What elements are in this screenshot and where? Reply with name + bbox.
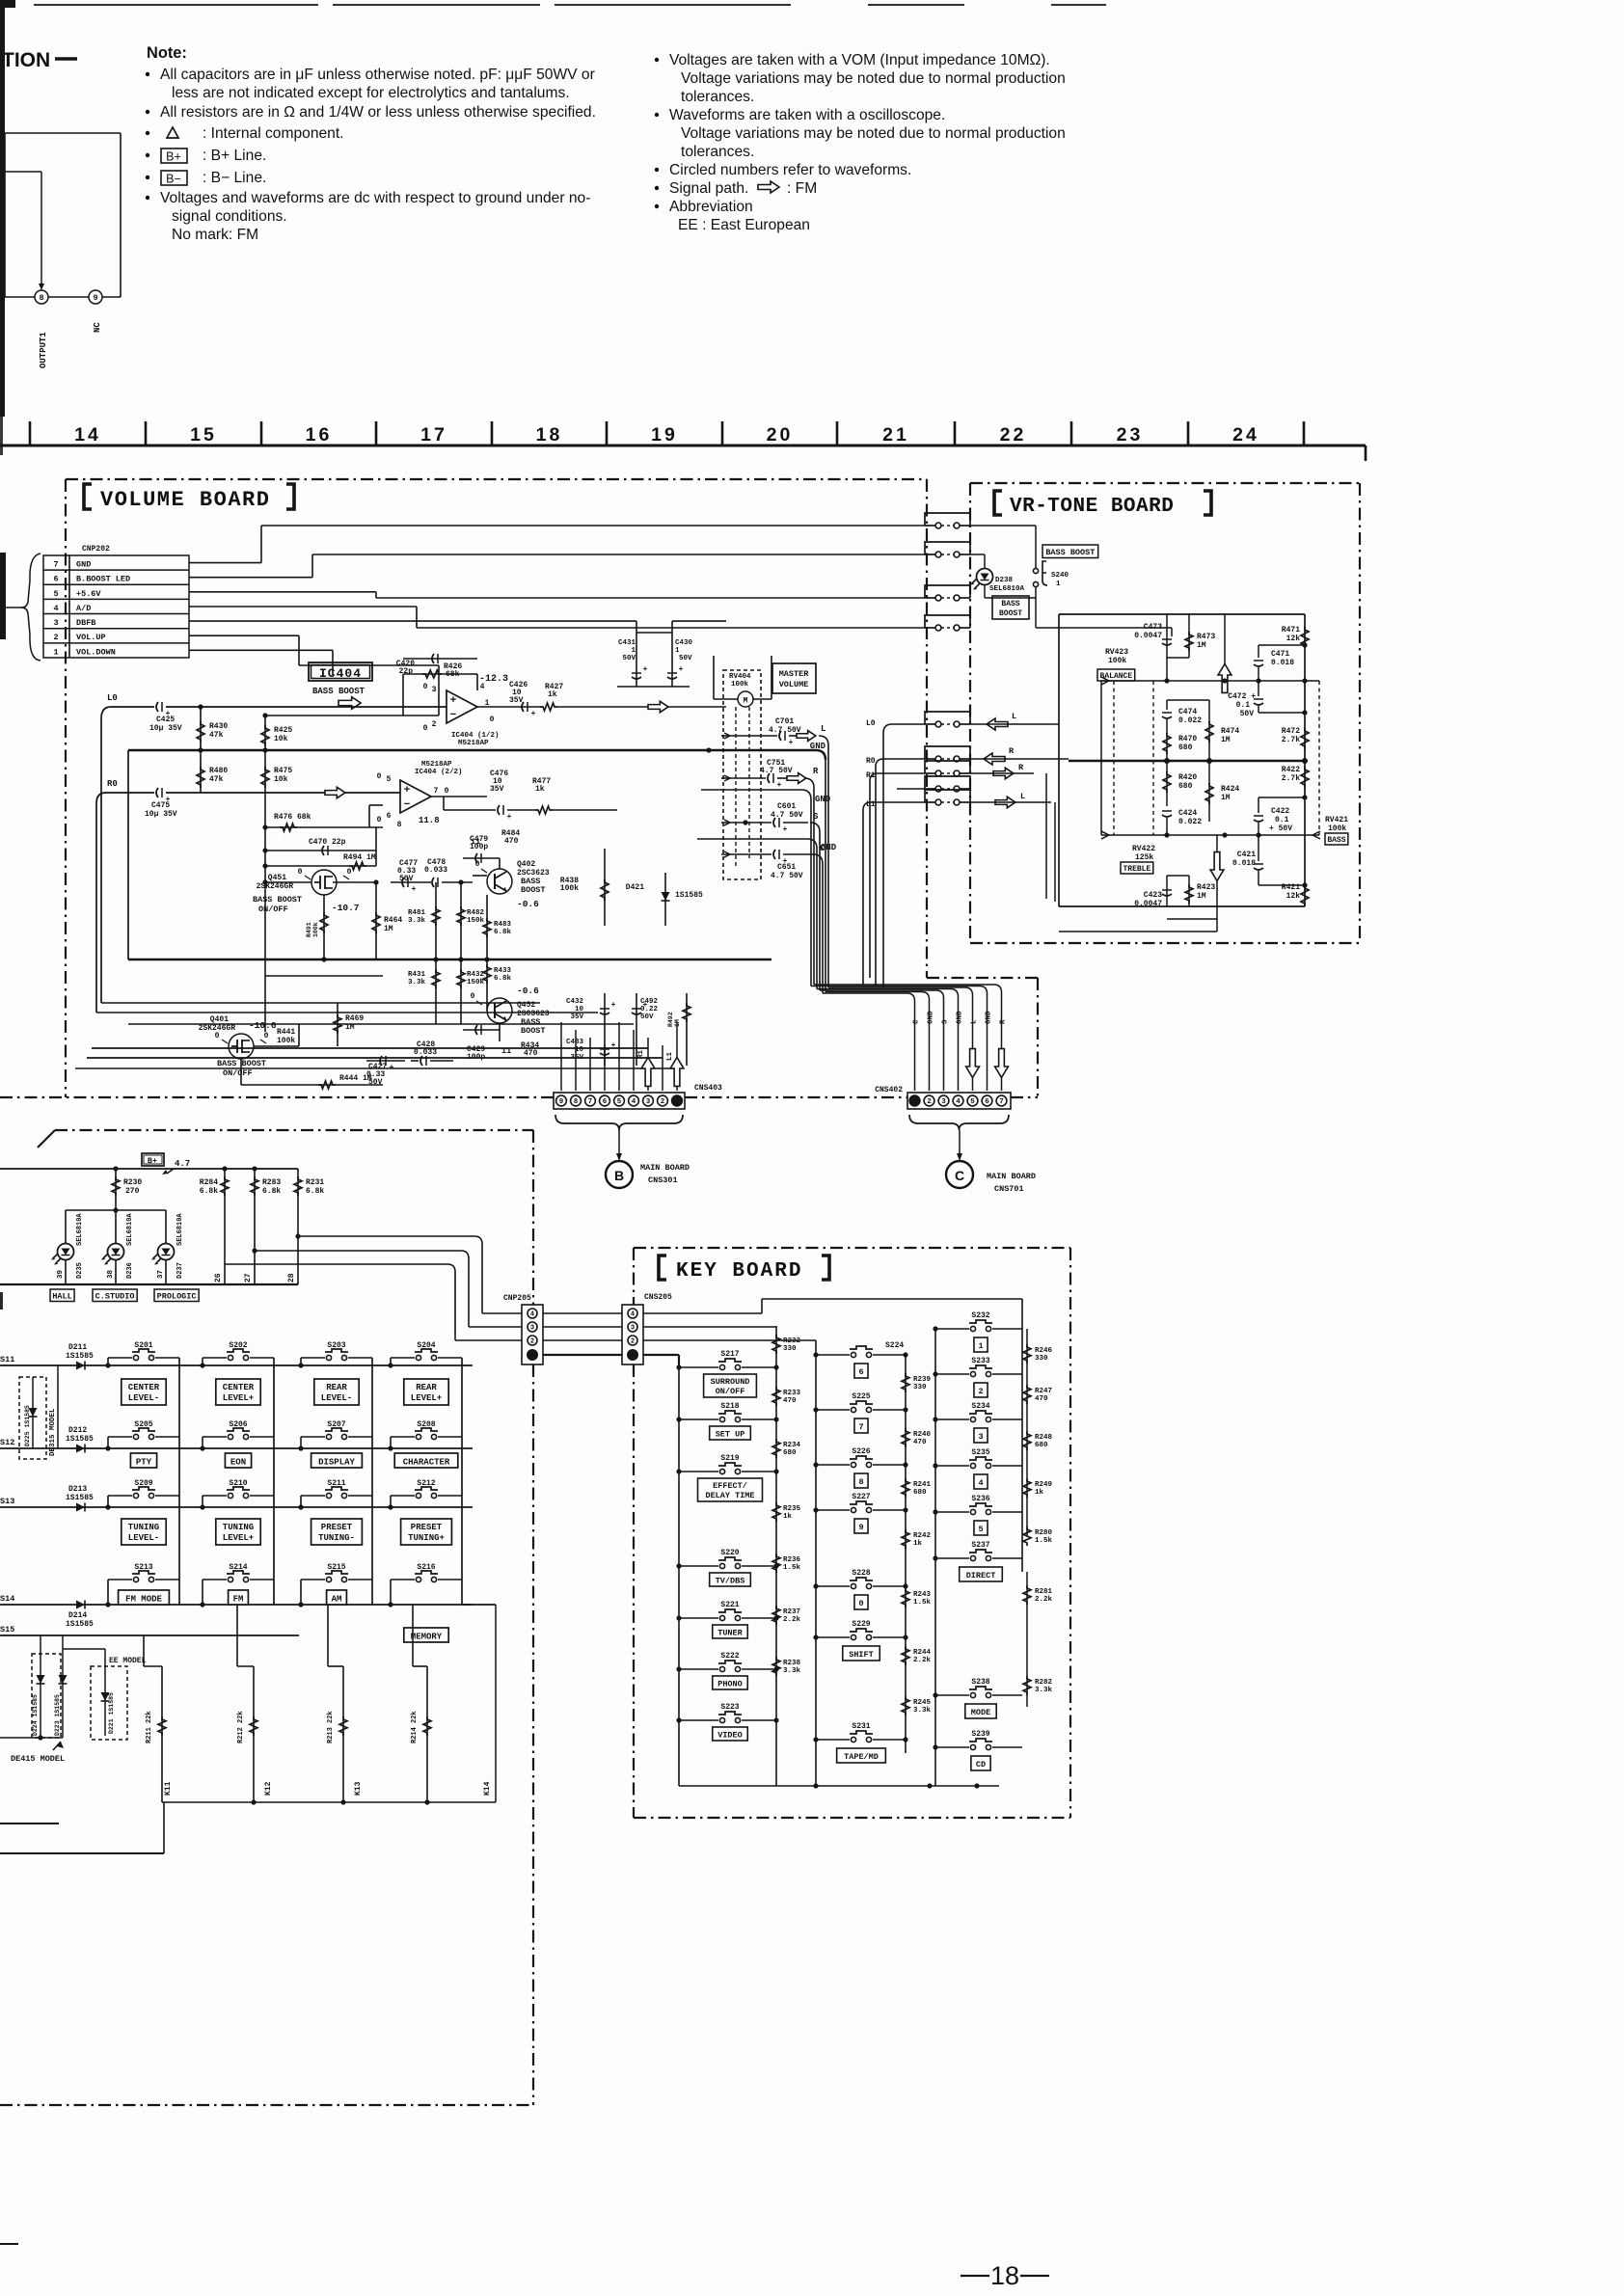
svg-text:R238: R238 — [783, 1660, 801, 1667]
svg-text:DBFB: DBFB — [76, 618, 95, 628]
svg-text:7: 7 — [588, 1098, 593, 1106]
svg-text:4: 4 — [631, 1311, 635, 1319]
right K bus vertical — [462, 1604, 496, 1606]
diode D213 — [76, 1503, 85, 1512]
svg-text:0.1: 0.1 — [1275, 816, 1289, 824]
wire CNP202 pin7 to jumper row 1 — [189, 562, 261, 564]
svg-text:6.8k: 6.8k — [262, 1187, 281, 1196]
net number 28 — [297, 1244, 299, 1284]
svg-text:R423: R423 — [1197, 883, 1215, 892]
capacitor C422 0.1 50V — [1258, 797, 1259, 813]
B+ rail wire — [0, 1168, 298, 1170]
switch S232 — [935, 1328, 969, 1330]
svg-text:1k: 1k — [783, 1513, 793, 1521]
svg-text:signal conditions.: signal conditions. — [172, 208, 287, 225]
svg-text:R481: R481 — [408, 909, 426, 917]
svg-text:R421: R421 — [1282, 883, 1300, 892]
capacitor C424 0.022 — [1162, 810, 1172, 812]
switch S209 — [133, 1493, 138, 1498]
bus exit wires — [0, 1823, 59, 1824]
resistor R425 — [264, 716, 266, 959]
svg-text:R231: R231 — [306, 1178, 324, 1187]
svg-text:EE : East European: EE : East European — [678, 217, 810, 233]
grid ruler — [0, 445, 1366, 447]
svg-text:14: 14 — [74, 424, 101, 446]
svg-text:100k: 100k — [560, 884, 579, 893]
svg-text:S211: S211 — [327, 1479, 345, 1488]
capacitor C475 — [156, 788, 158, 797]
wire CNP202 pin4 to jumper row 4 — [189, 606, 417, 608]
resistor R244 2.2k — [902, 1646, 909, 1665]
wiper arrows on RV404 — [721, 733, 730, 739]
vr-tone bass boost net wires — [1036, 627, 1172, 629]
svg-text:2: 2 — [661, 1098, 665, 1106]
svg-text:-0.6: -0.6 — [517, 899, 539, 909]
svg-text:1S1585: 1S1585 — [66, 1620, 94, 1629]
svg-text:R475: R475 — [274, 767, 292, 775]
svg-text:MASTER: MASTER — [779, 669, 810, 679]
svg-text:DELAY TIME: DELAY TIME — [705, 1491, 754, 1500]
output row R with C751 — [730, 777, 766, 779]
svg-text:S232: S232 — [971, 1311, 989, 1320]
svg-text:No mark: FM: No mark: FM — [172, 227, 258, 243]
svg-text:3: 3 — [530, 1325, 534, 1333]
svg-text:S210: S210 — [229, 1479, 247, 1488]
resistor R243 1.5k — [902, 1588, 909, 1607]
resistor R433 6.8k — [483, 964, 491, 984]
output row GND2 — [701, 790, 811, 799]
connector CNS402 — [907, 1093, 1011, 1109]
model diode dashed box DE315 — [19, 1377, 46, 1459]
svg-text:3.3k: 3.3k — [1035, 1687, 1053, 1694]
resistor R249 1k — [1023, 1478, 1031, 1498]
svg-text:SEL6810A: SEL6810A — [126, 1213, 134, 1246]
svg-text:R245: R245 — [913, 1699, 932, 1707]
svg-text:R214 22k: R214 22k — [411, 1711, 419, 1743]
svg-text:0: 0 — [215, 1032, 220, 1040]
svg-text:S237: S237 — [971, 1541, 989, 1550]
row net S12 wire — [0, 1447, 473, 1449]
svg-text:C432: C432 — [566, 998, 584, 1006]
KEY BOARD title — [659, 1256, 666, 1280]
svg-text:B: B — [614, 1168, 624, 1183]
svg-text:C651: C651 — [777, 863, 796, 872]
page top border line — [34, 4, 318, 6]
svg-text:R: R — [1000, 1019, 1008, 1024]
arrow up L1 into CNS403 — [670, 1058, 684, 1087]
svg-text:4.7 50V: 4.7 50V — [771, 872, 803, 880]
svg-text:DE415 MODEL: DE415 MODEL — [11, 1754, 65, 1764]
svg-text:+ 50V: + 50V — [1269, 824, 1292, 833]
keyboard column 1 bus — [678, 1367, 680, 1786]
svg-text:R: R — [1018, 763, 1024, 772]
resistor R430 — [200, 707, 202, 793]
keyboard bottom rail — [679, 1785, 999, 1787]
svg-text:NC: NC — [93, 322, 102, 333]
svg-text:C.STUDIO: C.STUDIO — [95, 1291, 135, 1301]
svg-text:R494 1M: R494 1M — [343, 853, 376, 862]
transistor Q451 2SK246GR — [311, 870, 337, 895]
svg-text:0.033: 0.033 — [424, 866, 447, 875]
svg-text:330: 330 — [783, 1345, 797, 1353]
svg-text:K13: K13 — [354, 1781, 363, 1796]
resistor R421 12k — [1301, 885, 1309, 906]
svg-text:6.8k: 6.8k — [494, 975, 512, 983]
svg-text:C: C — [820, 844, 826, 853]
B- box symbol in notes — [161, 171, 187, 185]
switch S217 — [679, 1366, 718, 1368]
signal arrow after opamp1 — [648, 701, 668, 712]
svg-text:TREBLE: TREBLE — [1123, 865, 1150, 874]
capacitor C476 — [498, 805, 500, 815]
svg-text:1S1585: 1S1585 — [675, 891, 703, 900]
svg-text:C431: C431 — [618, 639, 636, 647]
svg-text:6.8k: 6.8k — [200, 1187, 218, 1196]
svg-text:1.5k: 1.5k — [783, 1564, 801, 1572]
output row L with C701 — [730, 735, 777, 737]
capacitor C431 — [636, 633, 637, 687]
jumper J7 R1 — [870, 773, 925, 781]
resistor R239 330 — [902, 1373, 909, 1392]
balance wiper row — [1101, 680, 1319, 682]
svg-text:BASS BOOST: BASS BOOST — [253, 895, 302, 905]
svg-text:2SK246GR: 2SK246GR — [257, 882, 294, 891]
svg-text:OUTPUT1: OUTPUT1 — [39, 332, 48, 368]
svg-text:6.8k: 6.8k — [306, 1187, 324, 1196]
svg-text:0: 0 — [298, 868, 303, 877]
svg-text:L0: L0 — [866, 719, 876, 728]
svg-text:VIDEO: VIDEO — [717, 1731, 743, 1741]
svg-text:1: 1 — [978, 1341, 983, 1351]
svg-text:MAIN BOARD: MAIN BOARD — [640, 1163, 690, 1173]
svg-text:7: 7 — [858, 1422, 863, 1432]
svg-text:RV404: RV404 — [729, 673, 751, 681]
switch S229 — [816, 1636, 850, 1638]
svg-text:S234: S234 — [971, 1402, 989, 1411]
svg-text:MODE: MODE — [971, 1708, 990, 1717]
svg-text:−: − — [404, 798, 410, 810]
svg-text:VOL.UP: VOL.UP — [76, 633, 106, 642]
svg-text:R284: R284 — [200, 1178, 218, 1187]
svg-text:R280: R280 — [1035, 1529, 1053, 1537]
svg-text:10k: 10k — [274, 775, 288, 784]
svg-text:18: 18 — [990, 2261, 1019, 2290]
svg-text:S217: S217 — [720, 1350, 739, 1359]
svg-text:R420: R420 — [1178, 773, 1197, 782]
label key TUNING LEVEL+ — [216, 1519, 260, 1545]
resistor R242 1k — [902, 1529, 909, 1549]
svg-text:21: 21 — [882, 424, 909, 446]
resistor R241 680 — [902, 1478, 909, 1498]
resistor R494 1M — [265, 865, 376, 867]
wires CNP205 to CNS205 — [543, 1312, 622, 1314]
svg-text:10k: 10k — [274, 735, 288, 743]
svg-text:S221: S221 — [720, 1601, 739, 1609]
svg-text:−: − — [450, 709, 456, 720]
svg-text:50V: 50V — [640, 1013, 654, 1021]
capacitor C478 — [432, 878, 434, 887]
svg-text:CD: CD — [976, 1760, 986, 1769]
svg-text:11.8: 11.8 — [419, 816, 440, 825]
svg-text:47k: 47k — [209, 775, 224, 784]
svg-text:S224: S224 — [885, 1341, 904, 1350]
resistor R471 12k — [1301, 627, 1309, 648]
resistor R477 — [535, 806, 553, 814]
wires jumpers into vr-tone — [970, 723, 1051, 725]
resistor R247 470 — [1023, 1385, 1031, 1404]
svg-text:R241: R241 — [913, 1481, 932, 1489]
switch S237 — [935, 1557, 969, 1559]
VOLUME BOARD bottom edge / main-board band line — [0, 1096, 554, 1098]
svg-text:: B− Line.: : B− Line. — [203, 170, 266, 186]
svg-text:EFFECT/: EFFECT/ — [713, 1481, 747, 1491]
resistor R438 100k — [604, 849, 606, 926]
svg-text:C: C — [913, 1019, 921, 1024]
page number 18 — [961, 2275, 989, 2277]
svg-text:2.7k: 2.7k — [1282, 736, 1300, 744]
LED rail — [66, 1209, 116, 1211]
svg-text:R469: R469 — [345, 1014, 364, 1023]
brace under CNS403 — [555, 1115, 683, 1130]
resistor R240 470 — [902, 1428, 909, 1447]
brace under CNS402 — [909, 1115, 1009, 1130]
svg-text:K11: K11 — [164, 1781, 173, 1796]
svg-text:2: 2 — [432, 720, 437, 729]
svg-text:D223 1S1585: D223 1S1585 — [54, 1694, 61, 1736]
svg-text:2SK246GR: 2SK246GR — [199, 1024, 236, 1033]
label S234 key — [974, 1428, 988, 1443]
LED D235 — [58, 1244, 74, 1260]
diode D224 — [40, 1635, 41, 1738]
label key CENTER LEVEL+ — [216, 1379, 260, 1405]
resistor R245 3.3k — [902, 1696, 909, 1715]
svg-text:DE315 MODEL: DE315 MODEL — [49, 1408, 57, 1456]
svg-text:PHONO: PHONO — [717, 1680, 743, 1689]
svg-text:S209: S209 — [134, 1479, 152, 1488]
opamp1 output wire — [477, 706, 540, 708]
svg-text:38: 38 — [107, 1269, 115, 1279]
svg-text:LEVEL-: LEVEL- — [128, 1393, 159, 1403]
wire lower rows — [265, 975, 383, 977]
svg-text:R239: R239 — [913, 1376, 932, 1384]
switch S221 — [679, 1617, 718, 1619]
svg-text:S14: S14 — [0, 1594, 14, 1604]
svg-text:Signal path.: Signal path. — [669, 180, 748, 197]
svg-text:SET UP: SET UP — [716, 1430, 745, 1440]
connector CNS205 — [622, 1305, 643, 1364]
svg-text:L1: L1 — [666, 1051, 674, 1061]
svg-text:4: 4 — [632, 1098, 636, 1106]
svg-text:Circled numbers refer to wavef: Circled numbers refer to waveforms. — [669, 162, 911, 178]
svg-text:26: 26 — [214, 1273, 223, 1283]
svg-text:Q402: Q402 — [517, 860, 535, 869]
svg-text:28: 28 — [287, 1273, 296, 1283]
svg-text:All capacitors are in μF unles: All capacitors are in μF unless otherwis… — [160, 67, 595, 83]
svg-text:TUNING: TUNING — [223, 1523, 254, 1532]
svg-text:SURROUND: SURROUND — [711, 1377, 750, 1387]
svg-text:12k: 12k — [1286, 635, 1301, 643]
svg-text:Q401: Q401 — [210, 1015, 229, 1024]
svg-text:D236: D236 — [126, 1262, 134, 1279]
svg-text:6: 6 — [603, 1098, 608, 1106]
resistor R427 — [540, 703, 557, 711]
wire CNP202 pin3 (DBFB) — [189, 620, 636, 622]
diode D211 — [76, 1362, 85, 1370]
switch S236 — [935, 1511, 969, 1513]
output row C with C651 — [730, 853, 771, 855]
svg-text:C: C — [955, 1168, 964, 1183]
svg-text:9: 9 — [93, 293, 97, 303]
svg-text:CNS403: CNS403 — [694, 1084, 722, 1093]
svg-text:LEVEL+: LEVEL+ — [223, 1533, 254, 1543]
svg-text:S229: S229 — [852, 1620, 870, 1629]
switch S212 — [416, 1493, 420, 1498]
svg-text:C422: C422 — [1271, 807, 1289, 816]
svg-text:3: 3 — [432, 686, 437, 694]
svg-text:R1: R1 — [637, 1049, 645, 1059]
svg-text:2.2k: 2.2k — [783, 1616, 801, 1624]
label S229 key — [843, 1646, 880, 1661]
resistor R482 150k — [460, 882, 462, 959]
svg-text:FM MODE: FM MODE — [125, 1595, 162, 1605]
label C.STUDIO — [93, 1289, 137, 1302]
svg-text:4: 4 — [978, 1478, 983, 1488]
diode D212 — [76, 1445, 85, 1453]
svg-text:27: 27 — [244, 1273, 253, 1283]
svg-text:-0.6: -0.6 — [517, 986, 539, 996]
svg-text:100p: 100p — [470, 843, 488, 851]
resistor R238 3.3k — [772, 1657, 780, 1676]
svg-text:0: 0 — [423, 683, 428, 691]
lower channel mid bus — [128, 959, 771, 961]
transistor Q402 2SC3623 — [487, 869, 512, 894]
svg-text:S216: S216 — [417, 1563, 435, 1572]
label key AM — [327, 1590, 347, 1605]
svg-text:R230: R230 — [123, 1178, 142, 1187]
svg-text:SHIFT: SHIFT — [849, 1650, 874, 1660]
svg-text:C433: C433 — [566, 1039, 584, 1046]
svg-text:IC404: IC404 — [319, 666, 362, 681]
svg-text:22p: 22p — [399, 667, 414, 676]
label S231 key — [837, 1748, 886, 1763]
svg-text:C470 22p: C470 22p — [309, 838, 346, 847]
svg-text:C471: C471 — [1271, 650, 1289, 659]
label S227 key — [854, 1519, 868, 1533]
svg-text:68k: 68k — [446, 670, 460, 679]
switch S211 — [326, 1493, 331, 1498]
svg-text:470: 470 — [783, 1397, 797, 1405]
svg-text:RV422: RV422 — [1132, 845, 1155, 853]
arrow down L into CNS402 — [966, 1049, 980, 1078]
svg-text:R0: R0 — [107, 779, 118, 789]
jumper J6 R0 — [876, 759, 925, 767]
svg-text:50V: 50V — [399, 875, 414, 883]
svg-text:R464: R464 — [384, 916, 402, 925]
svg-text:BOOST: BOOST — [521, 885, 546, 895]
svg-text:0: 0 — [347, 868, 352, 877]
svg-text:0.018: 0.018 — [1271, 659, 1294, 667]
svg-text:BASS BOOST: BASS BOOST — [312, 687, 365, 696]
svg-text:GND: GND — [986, 1011, 993, 1024]
svg-text:100k: 100k — [312, 922, 319, 937]
svg-text:330: 330 — [913, 1384, 927, 1391]
svg-text:D235: D235 — [76, 1262, 84, 1279]
svg-text:S205: S205 — [134, 1420, 152, 1429]
output row S with C601 — [730, 822, 771, 824]
svg-text:CNP205: CNP205 — [503, 1294, 531, 1303]
svg-text:A/D: A/D — [76, 604, 91, 613]
svg-text:B−: B− — [166, 173, 181, 186]
svg-text:470: 470 — [504, 837, 519, 846]
resistor R469 1M — [334, 1014, 341, 1034]
svg-text:+5.6V: +5.6V — [76, 589, 101, 599]
vr-tone network outer rails — [1059, 613, 1305, 615]
svg-text:SEL6810A: SEL6810A — [176, 1213, 184, 1246]
svg-text:15: 15 — [190, 424, 217, 446]
svg-text:20: 20 — [767, 424, 794, 446]
svg-text:R233: R233 — [783, 1390, 801, 1397]
svg-text:R213 22k: R213 22k — [327, 1711, 335, 1743]
svg-text:TION: TION — [2, 49, 50, 71]
transistor Q401 2SK246GR — [229, 1034, 254, 1059]
label S224 key — [854, 1364, 868, 1378]
MASTER VOLUME label box — [772, 663, 816, 693]
svg-text:BOOST: BOOST — [521, 1026, 546, 1036]
svg-text:47k: 47k — [209, 731, 224, 740]
svg-text:C430: C430 — [675, 639, 693, 647]
svg-text:680: 680 — [1035, 1442, 1048, 1449]
svg-text:S236: S236 — [971, 1495, 989, 1503]
wire feedback R426/C420 — [403, 673, 477, 675]
label S217 — [704, 1374, 757, 1397]
resistor R474 1M — [1208, 700, 1210, 761]
svg-text:SEL6810A: SEL6810A — [989, 585, 1025, 593]
keyboard feed wires — [643, 1312, 762, 1314]
label key EON — [225, 1453, 251, 1468]
capacitor C428 — [420, 1056, 422, 1066]
label HALL — [50, 1289, 74, 1302]
svg-text:35V: 35V — [490, 785, 504, 794]
svg-text:REAR: REAR — [416, 1383, 437, 1392]
svg-text:Waveforms are taken with a osc: Waveforms are taken with a oscilloscope. — [669, 107, 945, 123]
svg-text:150k: 150k — [467, 979, 485, 986]
capacitor C421 0.018 — [1258, 835, 1259, 861]
label key PTY — [130, 1453, 156, 1468]
resistor R475 — [261, 767, 269, 788]
svg-text:18: 18 — [536, 424, 563, 446]
svg-text:S215: S215 — [327, 1563, 345, 1572]
svg-text:19: 19 — [651, 424, 678, 446]
svg-text:BASS: BASS — [1327, 836, 1345, 845]
switch S214 — [228, 1577, 232, 1581]
svg-text:C472 +: C472 + — [1228, 692, 1256, 701]
svg-text:0: 0 — [377, 772, 382, 781]
svg-text:D213: D213 — [68, 1485, 87, 1494]
keyboard column 2 bus — [815, 1355, 817, 1786]
svg-text:680: 680 — [783, 1449, 797, 1457]
svg-text:R471: R471 — [1282, 626, 1300, 635]
svg-text:L0: L0 — [107, 693, 118, 703]
svg-text:C423: C423 — [1144, 891, 1162, 900]
svg-text:3: 3 — [631, 1325, 635, 1333]
op-amp U1 IC404 1/2 — [447, 690, 477, 723]
svg-text:16: 16 — [306, 424, 333, 446]
svg-text:125k: 125k — [1135, 853, 1153, 862]
LED D236 — [108, 1244, 124, 1260]
svg-text:IC404 (1/2): IC404 (1/2) — [451, 732, 500, 740]
B+ box symbol in notes — [161, 149, 187, 163]
jumper J1 volume-to-vrtone — [925, 525, 935, 527]
